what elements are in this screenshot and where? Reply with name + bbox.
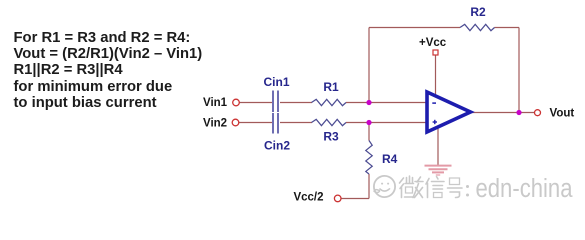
svg-text:Vin2: Vin2 [203,118,227,130]
svg-text:Vout: Vout [550,108,575,120]
svg-text:Cin2: Cin2 [264,139,290,153]
wire Cin1 to R1 [280,102,312,104]
resistor R4 (vertical) [366,141,372,175]
svg-text:R1: R1 [323,80,339,94]
wire feedback left vertical [368,28,370,103]
wire Vin2 to Cin2 [239,122,272,124]
node A (junction R1 / feedback) [366,100,371,105]
wire op-amp output to Vout terminal [471,112,535,114]
wire R2 to right vertical [495,27,520,29]
capacitor Cin1 [273,91,278,113]
resistor R3 [312,119,347,125]
wire feedback top left to R2 [369,27,460,29]
op-amp U1 [427,92,471,132]
wire R4 to corner [368,174,370,199]
pin - (inverting input mark) [432,102,436,104]
wire +Vcc to op-amp supply [435,55,437,96]
resistor R2 [460,24,495,30]
ground [425,166,452,175]
svg-text:Vcc/2: Vcc/2 [293,192,323,204]
watermark logo (gray face) [374,176,395,197]
node B (junction R3 / R4) [366,120,371,125]
wire node B down to R4 [368,123,370,141]
watermark colon [466,185,469,197]
watermark character 信 [426,177,444,198]
wire R3 to op-amp non-inverting input [346,122,427,124]
wire Vin1 to Cin1 [240,102,273,104]
wire feedback right vertical to output node [518,28,520,113]
terminal Vcc/2 [334,195,341,202]
svg-text:R4: R4 [382,152,398,166]
svg-text:Cin1: Cin1 [263,75,289,89]
terminal +Vcc (square) [433,50,438,55]
wire corner to Vcc/2 terminal [341,198,369,200]
svg-text:+Vcc: +Vcc [419,37,447,49]
equation text block [14,30,203,112]
resistor R1 [312,99,347,105]
svg-text:Vin1: Vin1 [203,97,228,109]
wire op-amp negative supply to ground [437,127,439,165]
terminal Vin2 [232,119,239,126]
wire Cin2 to R3 [280,122,312,124]
watermark character 号 [448,178,463,198]
pin + (non-inverting input mark) [433,120,437,124]
node OUT (junction output / feedback) [516,110,521,115]
terminal Vin1 [233,99,240,106]
terminal Vout [535,110,541,116]
watermark character 微 [400,176,424,198]
svg-text:R2: R2 [470,5,486,19]
svg-text:edn-china: edn-china [476,174,574,203]
wire R1 to op-amp inverting input [346,102,427,104]
svg-text:R3: R3 [323,130,339,144]
capacitor Cin2 [273,113,278,134]
